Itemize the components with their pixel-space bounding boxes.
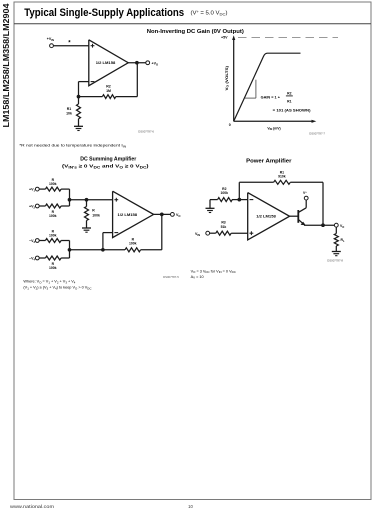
svg-text:R1: R1 bbox=[280, 170, 284, 174]
svg-text:100k: 100k bbox=[129, 242, 137, 246]
svg-text:51k: 51k bbox=[221, 225, 227, 229]
svg-text:GAIN = 1 +: GAIN = 1 + bbox=[261, 95, 280, 99]
svg-text:R2: R2 bbox=[287, 91, 291, 95]
svg-text:Power Amplifier: Power Amplifier bbox=[246, 159, 292, 165]
svg-text:R2: R2 bbox=[222, 187, 226, 191]
svg-text:LM158/LM258/LM358/LM2904: LM158/LM258/LM358/LM2904 bbox=[1, 3, 11, 127]
svg-text:10k: 10k bbox=[66, 112, 72, 116]
svg-text:DS007787-5: DS007787-5 bbox=[163, 275, 179, 279]
svg-text:DS007787-8: DS007787-8 bbox=[327, 259, 343, 263]
svg-text:R3: R3 bbox=[221, 221, 225, 225]
svg-text:DS007787-7: DS007787-7 bbox=[309, 131, 325, 135]
svg-text:910k: 910k bbox=[278, 175, 286, 179]
svg-text:Typical Single-Supply Applicat: Typical Single-Supply Applications bbox=[24, 7, 184, 19]
svg-text:DS007787-6: DS007787-6 bbox=[138, 129, 154, 133]
svg-text:100k: 100k bbox=[49, 266, 57, 270]
svg-text:0: 0 bbox=[229, 123, 231, 127]
svg-text:= 101 (AS SHOWN): = 101 (AS SHOWN) bbox=[273, 108, 312, 112]
svg-text:Non-Inverting DC Gain (0V Outp: Non-Inverting DC Gain (0V Output) bbox=[147, 29, 244, 35]
svg-text:100k: 100k bbox=[92, 213, 100, 217]
svg-text:10: 10 bbox=[188, 504, 193, 509]
svg-text:R1: R1 bbox=[67, 107, 72, 111]
svg-text:+5V: +5V bbox=[221, 35, 228, 39]
svg-text:R2: R2 bbox=[106, 85, 111, 89]
svg-text:1/2 LM158: 1/2 LM158 bbox=[96, 61, 116, 65]
svg-text:R1: R1 bbox=[287, 99, 291, 103]
svg-text:DC Summing Amplifier: DC Summing Amplifier bbox=[80, 157, 137, 163]
svg-text:1M: 1M bbox=[106, 89, 111, 93]
svg-text:www.national.com: www.national.com bbox=[10, 504, 55, 509]
svg-text:1/2 LM158: 1/2 LM158 bbox=[118, 213, 138, 217]
svg-text:1/2 LM158: 1/2 LM158 bbox=[256, 214, 276, 218]
svg-text:100k: 100k bbox=[49, 214, 57, 218]
svg-text:100k: 100k bbox=[49, 234, 57, 238]
svg-text:100k: 100k bbox=[221, 191, 229, 195]
svg-text:100k: 100k bbox=[49, 182, 57, 186]
